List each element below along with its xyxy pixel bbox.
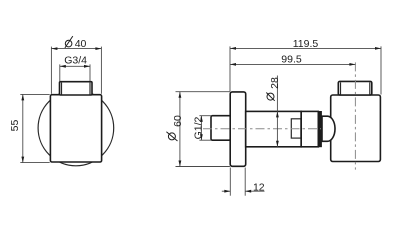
dimension 12 label <box>253 181 265 193</box>
dimension 119.5 label <box>293 38 319 50</box>
dimension 55 label (rotated) <box>9 120 21 132</box>
dome knob <box>322 116 335 141</box>
dimension 55 extension lines <box>20 94 49 162</box>
step segment <box>301 111 318 146</box>
dimension 119.5 right extension line <box>380 46 382 94</box>
dimension 12 line <box>222 190 265 193</box>
svg-text:60: 60 <box>172 115 184 127</box>
svg-text:12: 12 <box>253 181 265 193</box>
dimension Ø60 extension lines <box>176 92 230 167</box>
dimension Ø28 line <box>276 76 279 148</box>
collar ring <box>318 111 322 147</box>
connection nut G3/4 front <box>60 82 93 95</box>
dimension G1/2 line <box>200 116 203 141</box>
svg-text:G3/4: G3/4 <box>64 55 87 67</box>
valve body front plate <box>50 95 101 162</box>
cartridge box inside body <box>291 119 301 138</box>
handle block <box>331 95 381 162</box>
dimension 119.5 line <box>230 47 381 50</box>
dimension Ø28 label (rotated digits + symbol) <box>266 77 281 101</box>
dimension Ø40 line <box>51 47 101 50</box>
flange circle Ø60 front <box>38 90 114 166</box>
svg-text:40: 40 <box>75 38 87 50</box>
svg-text:99.5: 99.5 <box>281 54 302 66</box>
svg-text:28: 28 <box>269 77 281 89</box>
dimension G1/2 extension lines <box>199 116 211 141</box>
handle cap <box>338 81 372 95</box>
body cylinder Ø28 <box>246 111 302 146</box>
dimension Ø60 line <box>179 92 182 167</box>
dimension G3/4 label <box>64 55 87 67</box>
dimension 55 line <box>21 94 24 162</box>
centerline horizontal valve axis <box>203 128 321 130</box>
dimension Ø40 extension lines <box>51 47 101 94</box>
dimension Ø40 label <box>65 36 87 50</box>
svg-text:G1/2: G1/2 <box>192 116 204 139</box>
centerline vertical handle axis <box>354 62 356 169</box>
dimension G1/2 label (rotated) <box>192 116 204 139</box>
dimension G3/4 line <box>60 65 90 68</box>
dimension Ø60 label (rotated digits + symbol) <box>166 115 184 141</box>
dimension 99.5 label <box>281 54 302 66</box>
dimension 99.5 line <box>230 63 355 66</box>
dimension 119.5 and 99.5 left extension line <box>229 46 231 91</box>
svg-text:119.5: 119.5 <box>293 38 319 50</box>
inlet stub G1/2 <box>211 116 231 141</box>
dimension G3/4 extension lines <box>60 64 90 81</box>
svg-text:55: 55 <box>9 120 21 132</box>
dimension 12 extension lines <box>230 168 245 196</box>
wall flange Ø60 side <box>230 92 246 166</box>
